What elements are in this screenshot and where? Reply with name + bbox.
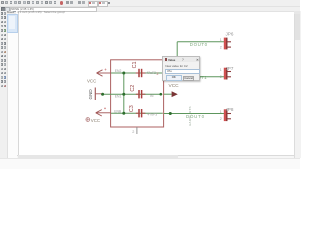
svg-text:1: 1 [220,68,222,72]
horizontal scrollbar [17,155,294,160]
wire to JP8 [164,113,224,115]
svg-text:C1: C1 [132,61,138,68]
wire row1 inside [111,72,162,74]
svg-text:GND: GND [88,89,93,100]
wire to JP6 vertical [176,42,178,57]
dialog close [196,58,199,62]
pin mark right row2 [162,93,164,95]
svg-text:C2: C2 [130,85,136,92]
IC body rectangle [111,60,164,127]
svg-text:1: 1 [220,110,222,114]
svg-text:1: 1 [220,38,222,42]
dialog title [168,58,175,62]
toolbar row1 icons [0,0,300,1]
sheets panel [7,11,19,159]
wire to JP7 [164,76,224,78]
connector JP6 [224,38,231,50]
bottom pin stub [136,127,138,134]
toolbar row separator [0,5,300,8]
pin cross left row1 [105,69,107,71]
svg-text:C3: C3 [129,105,135,112]
svg-text:JP8: JP8 [226,107,234,112]
svg-text:47uF2: 47uF2 [146,71,156,75]
svg-text:IN: IN [150,94,154,98]
wire to JP6 [177,41,224,43]
svg-text:VCC: VCC [87,79,96,84]
svg-text:VCC: VCC [169,83,180,89]
wire row2 inside [101,93,162,95]
supply arrow VCC row1 [97,70,111,76]
ground symbol [94,88,96,101]
command line row icon [1,7,6,13]
svg-text:2: 2 [132,130,134,134]
connector JP7 [224,68,231,80]
svg-text:VCC: VCC [91,118,100,123]
supply arrow VCC row3 [96,110,111,116]
svg-text:47uF3: 47uF3 [148,112,158,116]
junction JP8 wire [169,112,172,115]
svg-text:2: 2 [220,117,222,121]
junction row2 left [101,93,104,96]
svg-text:DOUT0: DOUT0 [186,114,205,119]
left toolbar background [0,11,7,159]
capacitor C1 [136,69,146,77]
supply arrow VCC right [164,93,172,95]
junction row1 [122,72,125,75]
vertical bus wire [123,73,125,113]
svg-text:ENB: ENB [114,109,122,113]
dialog box [162,56,200,81]
vertical scrollbar [294,11,301,159]
wire row3 inside [111,112,163,114]
dialog input [165,69,199,74]
dialog Cancel button [183,76,195,82]
canvas coordinate strip text [18,10,66,14]
dialog help mark [182,58,184,62]
sheet thumbnail selected [7,14,18,33]
svg-text:2: 2 [220,75,222,79]
dialog icon [165,58,167,60]
capacitor C2 [136,90,146,98]
capacitor C3 [136,109,146,117]
svg-text:EN2: EN2 [115,69,122,73]
pin cross left row3 [104,107,106,109]
svg-text:JP7: JP7 [226,66,234,71]
top toolbar background [0,0,300,12]
supply plus symbol [86,118,90,122]
svg-text:JP6: JP6 [226,32,234,37]
status bar [0,158,300,169]
schematic SVG [0,0,300,168]
command line input [5,7,10,12]
dialog OK button [166,75,182,81]
connector JP8 [224,109,231,121]
junction row2 bus [122,93,125,96]
svg-text:EN1: EN1 [115,95,122,99]
svg-text:DOUT0: DOUT0 [190,42,208,47]
svg-text:2: 2 [157,72,159,76]
dialog label [165,64,187,68]
junction row3 bus [122,112,125,115]
svg-text:2: 2 [220,45,222,49]
pin mark right row3 [162,112,164,114]
